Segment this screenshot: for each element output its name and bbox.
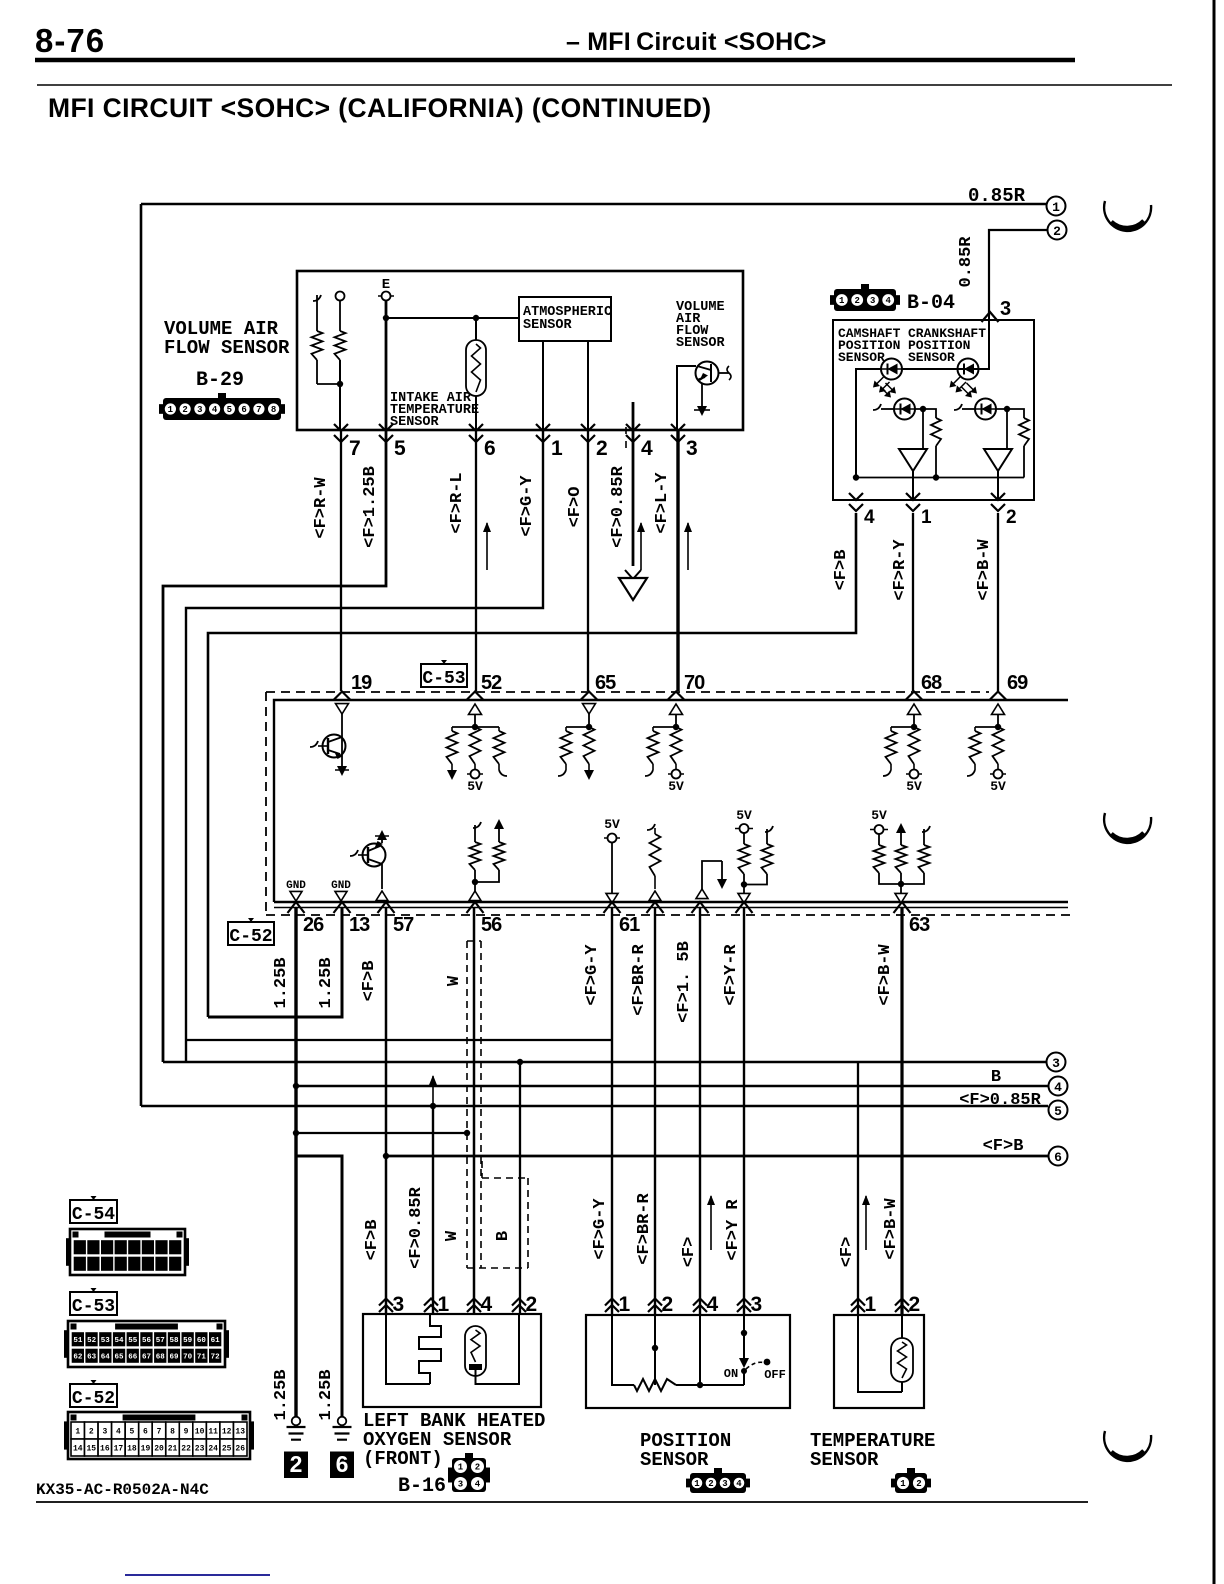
resistor group pin68 <box>891 726 914 728</box>
svg-text:15: 15 <box>87 1444 97 1453</box>
junction <box>853 474 859 480</box>
svg-text:1: 1 <box>619 1293 631 1316</box>
svg-text:SENSOR: SENSOR <box>523 318 573 333</box>
wire <box>611 842 613 893</box>
LED camshaft <box>881 359 902 380</box>
svg-text:SENSOR: SENSOR <box>838 350 885 365</box>
ground symbol 2 <box>292 1417 301 1426</box>
tag C-54 <box>70 1200 117 1223</box>
C-52 pin 13 <box>334 902 351 913</box>
svg-text:1: 1 <box>921 507 932 528</box>
wire <box>913 715 915 728</box>
svg-text:<F>B: <F>B <box>363 1220 382 1261</box>
junction <box>430 1103 436 1109</box>
wire pin4 0.85R stub <box>632 402 635 566</box>
wire wiper <box>654 1314 656 1385</box>
svg-text:2: 2 <box>909 1293 921 1316</box>
direction arrow <box>687 523 689 570</box>
terminal 5 circle <box>1049 1101 1068 1120</box>
svg-text:4: 4 <box>116 1427 121 1436</box>
shield dashed W <box>466 941 468 1268</box>
svg-text:6: 6 <box>336 1451 349 1477</box>
svg-text:W: W <box>445 975 464 986</box>
5V supply <box>913 764 915 770</box>
svg-text:54: 54 <box>115 1337 125 1345</box>
VAF pin 4 <box>626 424 640 442</box>
ecu transistor pin57 <box>363 844 386 867</box>
wire <box>912 471 914 500</box>
position sensor pin 4 <box>693 1299 707 1313</box>
svg-text:6: 6 <box>143 1427 148 1436</box>
svg-text:C-53: C-53 <box>422 669 465 689</box>
junction <box>920 406 926 412</box>
svg-text:1.25B: 1.25B <box>272 1369 291 1420</box>
junction <box>911 724 917 730</box>
wire <F>B-W pin63 <box>900 908 903 1314</box>
wire <box>475 396 477 430</box>
bottom node wire <box>856 477 1024 479</box>
svg-text:7: 7 <box>256 405 261 415</box>
VAF pin 5 <box>379 424 393 442</box>
C-53 pin 68 <box>906 692 923 701</box>
photodiode camshaft <box>894 399 915 420</box>
wire 0.85R to terminal 2 <box>989 230 1047 316</box>
C-52 pin <box>736 902 753 913</box>
junction <box>383 315 389 321</box>
wire <box>339 301 341 331</box>
svg-text:51: 51 <box>73 1337 83 1345</box>
C-52 pin 26 <box>288 902 305 913</box>
left frame ground wire <box>140 204 143 1106</box>
input triangle pin57 <box>376 891 388 901</box>
blue underline mark <box>125 1574 270 1576</box>
svg-text:1: 1 <box>694 1479 700 1489</box>
svg-text:1: 1 <box>75 1427 80 1436</box>
svg-text:20: 20 <box>154 1444 164 1453</box>
svg-text:(FRONT): (FRONT) <box>363 1448 443 1470</box>
svg-text:2: 2 <box>475 1463 480 1473</box>
svg-text:<F>R-W: <F>R-W <box>312 477 331 539</box>
svg-text:SENSOR: SENSOR <box>676 336 726 351</box>
svg-text:4: 4 <box>1054 1080 1062 1095</box>
svg-text:C-52: C-52 <box>229 927 272 947</box>
termination curl <box>974 764 976 770</box>
svg-text:<F>G-Y: <F>G-Y <box>518 475 537 537</box>
svg-text:1.25B: 1.25B <box>317 957 336 1008</box>
5V supply <box>474 764 476 770</box>
switch ON-OFF <box>743 1314 745 1362</box>
wire <F>1.5B <box>699 908 701 1314</box>
junction <box>586 724 592 730</box>
position sensor pin 1 <box>605 1299 619 1313</box>
wire <box>676 1384 744 1386</box>
svg-text:3: 3 <box>722 1479 727 1489</box>
svg-text:<F>Y-R: <F>Y-R <box>722 944 741 1006</box>
binder hole bottom <box>1104 1431 1151 1461</box>
C-52 pin 56 <box>467 902 484 913</box>
svg-text:5V: 5V <box>467 779 483 794</box>
wire <box>475 318 477 340</box>
connector B-29 <box>163 398 281 420</box>
svg-text:1: 1 <box>168 405 174 415</box>
page right border <box>1213 0 1216 1584</box>
wire E down pin 5 <box>385 301 388 430</box>
position sensor pin 2 <box>648 1299 662 1313</box>
svg-text:2: 2 <box>526 1293 538 1316</box>
svg-text:5V: 5V <box>604 817 620 832</box>
svg-text:1: 1 <box>900 1479 906 1489</box>
svg-text:<F>G-Y: <F>G-Y <box>583 944 602 1006</box>
wire R-Y <box>912 513 914 691</box>
resistor pin56 left <box>473 822 481 828</box>
svg-text:5V: 5V <box>906 779 922 794</box>
VAF pin 6 <box>469 424 483 442</box>
internal ground arrow <box>697 406 707 416</box>
atmospheric sensor box <box>519 297 611 341</box>
wire <F>Y-R <box>743 908 745 1314</box>
svg-text:C-52: C-52 <box>72 1389 115 1409</box>
svg-text:5V: 5V <box>668 779 684 794</box>
resistor group pin65 <box>566 726 589 728</box>
svg-text:SENSOR: SENSOR <box>640 1449 709 1471</box>
svg-text:B-16: B-16 <box>398 1475 446 1498</box>
C-52 pin <box>692 902 709 913</box>
tag C-52 <box>228 922 274 945</box>
oxygen sensor box <box>363 1314 541 1407</box>
svg-text:2: 2 <box>290 1451 303 1477</box>
junction <box>673 724 679 730</box>
svg-text:6: 6 <box>1054 1150 1062 1165</box>
wire <box>701 384 703 406</box>
C-53 pin 70 <box>668 692 685 701</box>
svg-text:3: 3 <box>102 1427 107 1436</box>
ground jog wire <box>296 1132 467 1134</box>
junction <box>933 474 939 480</box>
junction <box>293 1130 299 1136</box>
svg-text:62: 62 <box>73 1353 83 1361</box>
svg-text:5: 5 <box>130 1427 135 1436</box>
VAF pin 1 <box>536 424 550 442</box>
svg-text:1: 1 <box>865 1293 877 1316</box>
terminal 6 circle <box>1049 1147 1068 1166</box>
svg-text:ON: ON <box>724 1367 738 1381</box>
ground branch wire <box>296 1156 342 1417</box>
junction <box>472 724 478 730</box>
footer rule <box>36 1501 1088 1503</box>
VAF pin 7 <box>334 424 348 442</box>
ECU dashed boundary <box>266 691 989 693</box>
tag C-53 <box>421 664 467 687</box>
B-16 pin 3 <box>379 1299 393 1313</box>
svg-text:59: 59 <box>183 1337 193 1345</box>
svg-text:5V: 5V <box>736 808 752 823</box>
svg-text:13: 13 <box>349 914 370 936</box>
resistor pair lead <box>313 295 321 301</box>
svg-text:55: 55 <box>128 1337 138 1345</box>
wire <box>339 360 341 430</box>
input triangle pin69 <box>992 704 1005 714</box>
connector view C-52 <box>64 1421 68 1449</box>
B-16 pin 2 <box>512 1299 526 1313</box>
svg-text:5V: 5V <box>990 779 1006 794</box>
svg-text:2: 2 <box>855 296 860 306</box>
wire <box>381 838 383 843</box>
wire pin3 L-Y <box>676 430 679 691</box>
wire led supply <box>902 316 989 369</box>
position resistor <box>634 1379 676 1391</box>
svg-text:– MFI Circuit <SOHC>: – MFI Circuit <SOHC> <box>566 28 826 56</box>
svg-text:2: 2 <box>596 437 608 460</box>
svg-text:1: 1 <box>458 1463 464 1473</box>
internal arrow <box>721 861 723 880</box>
junction <box>293 1083 299 1089</box>
svg-text:21: 21 <box>168 1444 178 1453</box>
input triangle <box>696 889 708 899</box>
direction arrow <box>710 1196 712 1250</box>
C-52 pin 57 <box>378 902 395 913</box>
wire <box>1006 409 1008 449</box>
op-amp crankshaft <box>984 449 1012 471</box>
VAF pin 2 <box>581 424 595 442</box>
svg-text:1.25B: 1.25B <box>317 1369 336 1420</box>
wire pin2 down <box>587 430 589 691</box>
svg-text:FLOW SENSOR: FLOW SENSOR <box>164 337 290 359</box>
wire <box>935 446 937 477</box>
resistor group pin69 <box>975 726 998 728</box>
svg-text:4: 4 <box>475 1480 481 1490</box>
vaf transistor Q1 <box>696 362 719 385</box>
bus wire row 6 <F>B <box>386 1155 1048 1158</box>
svg-text:5: 5 <box>227 405 232 415</box>
wire B shield core <box>519 1062 521 1314</box>
svg-text:3: 3 <box>686 437 698 460</box>
svg-text:<F>: <F> <box>680 1237 699 1268</box>
svg-text:57: 57 <box>393 914 414 936</box>
svg-text:5: 5 <box>1054 1104 1062 1119</box>
junction <box>898 881 904 887</box>
svg-text:<F>: <F> <box>838 1237 857 1268</box>
svg-text:3: 3 <box>197 405 202 415</box>
B-04 pin 1 <box>906 493 920 511</box>
oxygen element capsule <box>465 1326 486 1376</box>
termination curl <box>890 764 892 770</box>
position sensor pin 3 <box>737 1299 751 1313</box>
svg-text:<F>1.25B: <F>1.25B <box>361 466 380 548</box>
internal arrow up <box>377 830 387 840</box>
svg-text:1: 1 <box>438 1293 450 1316</box>
resistor col924 <box>922 826 930 832</box>
input triangle pin70 <box>670 704 683 714</box>
svg-text:12: 12 <box>222 1427 232 1436</box>
wire 1.25B pin13 <box>208 908 342 1017</box>
tag C-53 view <box>70 1292 117 1315</box>
svg-text:B-29: B-29 <box>196 369 244 392</box>
svg-text:SENSOR: SENSOR <box>390 415 440 430</box>
svg-text:<F>R-L: <F>R-L <box>448 472 467 533</box>
svg-text:1: 1 <box>1052 200 1060 215</box>
svg-text:72: 72 <box>211 1353 221 1361</box>
svg-text:B: B <box>494 1231 513 1241</box>
svg-text:5: 5 <box>394 437 406 460</box>
svg-text:16: 16 <box>100 1444 110 1453</box>
B-04 pin 2 <box>991 493 1005 511</box>
wire <box>1023 446 1025 478</box>
connector view C-53 <box>64 1330 68 1358</box>
svg-text:13: 13 <box>235 1427 245 1436</box>
svg-text:7: 7 <box>349 437 361 460</box>
svg-text:63: 63 <box>909 914 930 936</box>
svg-text:70: 70 <box>183 1353 193 1361</box>
svg-text:<F>B-W: <F>B-W <box>876 944 895 1006</box>
svg-text:11: 11 <box>208 1427 218 1436</box>
temp sensor pin 1 <box>851 1299 865 1313</box>
svg-text:25: 25 <box>222 1444 232 1453</box>
svg-text:8: 8 <box>170 1427 175 1436</box>
wire temp sensor feed <box>857 1062 859 1314</box>
connector position sensor <box>690 1473 746 1493</box>
direction arrow <box>865 1196 867 1250</box>
output triangle pin61 <box>606 893 618 903</box>
volume air flow sensor box <box>297 271 743 430</box>
wire 0.85R to terminal 1 <box>141 203 1046 206</box>
heater element <box>386 1314 430 1384</box>
terminal 2 circle <box>1048 221 1067 240</box>
connector view C-54 <box>66 1238 70 1266</box>
internal arrow up <box>896 823 906 833</box>
svg-text:69: 69 <box>169 1353 179 1361</box>
junction <box>517 1059 523 1065</box>
wire E bus <box>386 317 519 319</box>
wire <box>588 714 590 727</box>
resistor col 655 <box>647 824 655 830</box>
svg-text:<F>B: <F>B <box>360 961 379 1002</box>
svg-text:4: 4 <box>864 507 875 528</box>
B-04 pin 4 <box>849 493 863 511</box>
output triangle pin65 <box>583 704 596 714</box>
svg-text:56: 56 <box>481 914 502 936</box>
svg-text:26: 26 <box>303 914 324 936</box>
connector B-04 <box>834 289 896 311</box>
bus wire row 3 <box>163 1061 1046 1063</box>
svg-text:<F>B: <F>B <box>983 1137 1024 1156</box>
wire <box>587 341 589 430</box>
svg-text:65: 65 <box>595 672 616 694</box>
svg-text:56: 56 <box>142 1337 152 1345</box>
svg-text:5V: 5V <box>871 808 887 823</box>
svg-text:58: 58 <box>169 1337 179 1345</box>
resistor col901 <box>896 845 907 873</box>
svg-text:63: 63 <box>87 1353 97 1361</box>
svg-text:70: 70 <box>684 672 705 694</box>
gnd triangle pin13 <box>335 891 347 901</box>
svg-text:53: 53 <box>101 1337 111 1345</box>
wire <box>699 1314 701 1385</box>
svg-text:68: 68 <box>921 672 942 694</box>
internal arrow <box>337 766 347 776</box>
5V supply <box>997 764 999 770</box>
svg-text:GND: GND <box>331 880 351 892</box>
input triangle pin68 <box>908 704 921 714</box>
bus wire row 4 B <box>296 1085 1048 1087</box>
svg-text:8: 8 <box>271 405 276 415</box>
svg-text:C-54: C-54 <box>72 1205 115 1225</box>
termination curl <box>652 764 654 770</box>
output triangle <box>738 893 750 903</box>
binder hole top <box>1104 201 1151 231</box>
svg-text:61: 61 <box>211 1337 221 1345</box>
svg-text:4: 4 <box>212 405 218 415</box>
svg-text:<F>B-W: <F>B-W <box>975 539 994 601</box>
output triangle pin19 <box>336 704 349 714</box>
wire <box>702 861 722 889</box>
svg-text:3: 3 <box>751 1293 763 1316</box>
svg-text:4: 4 <box>886 296 892 306</box>
resistor R-b <box>335 331 346 360</box>
ground symbol 6 <box>338 1417 347 1426</box>
svg-text:<F>0.85R: <F>0.85R <box>959 1091 1041 1110</box>
svg-text:3: 3 <box>1000 298 1011 320</box>
wire <box>915 409 936 418</box>
resistor col767 <box>765 826 773 832</box>
op-amp camshaft <box>899 449 927 471</box>
resistor <box>931 418 941 446</box>
direction arrow <box>432 1076 434 1104</box>
svg-text:22: 22 <box>181 1444 191 1453</box>
wire <box>996 409 1024 418</box>
svg-text:8-76: 8-76 <box>35 22 105 59</box>
svg-text:1.25B: 1.25B <box>272 957 291 1008</box>
svg-text:<F>O: <F>O <box>566 487 585 528</box>
input triangle pin56 <box>469 891 481 901</box>
wire <box>858 1314 902 1392</box>
resistor R-a <box>312 331 323 360</box>
wire <F>BR-R <box>654 908 656 1314</box>
LED crankshaft <box>958 359 979 380</box>
C-52 pin 63 <box>894 902 911 913</box>
input triangle <box>649 891 661 901</box>
resistor group pin52 <box>452 726 499 728</box>
svg-text:<F>Y R: <F>Y R <box>724 1199 743 1261</box>
svg-text:26: 26 <box>235 1444 245 1453</box>
VAF pin 3 <box>671 424 685 442</box>
svg-text:<F>BR-R: <F>BR-R <box>635 1193 654 1265</box>
C-53 pin 52 <box>467 692 484 701</box>
svg-text:3: 3 <box>1052 1056 1060 1071</box>
svg-text:19: 19 <box>351 672 372 694</box>
wire B-04 B bus <box>208 513 856 1017</box>
C-53 pin 19 <box>334 692 351 701</box>
LED light arrows <box>875 377 884 386</box>
svg-text:9: 9 <box>184 1427 189 1436</box>
termination arrow <box>588 764 590 772</box>
wire <box>675 715 677 728</box>
resistor col879 <box>878 834 880 845</box>
dashes at pin 4 <box>625 427 627 434</box>
termination curl <box>498 764 500 770</box>
resistor group pin70 <box>653 726 676 728</box>
B-04 pin 3 entry <box>982 312 999 322</box>
svg-text:KX35-AC-R0502A-N4C: KX35-AC-R0502A-N4C <box>36 1481 209 1499</box>
junction <box>472 879 478 885</box>
B-16 pin 4 <box>467 1299 481 1313</box>
svg-text:<F>R-Y: <F>R-Y <box>891 539 910 601</box>
svg-text:3: 3 <box>393 1293 405 1316</box>
svg-text:18: 18 <box>127 1444 137 1453</box>
output triangle <box>895 893 907 903</box>
photodiode crankshaft <box>975 399 996 420</box>
svg-text:0.85R: 0.85R <box>957 236 976 288</box>
wire pin6 down <box>475 430 477 691</box>
